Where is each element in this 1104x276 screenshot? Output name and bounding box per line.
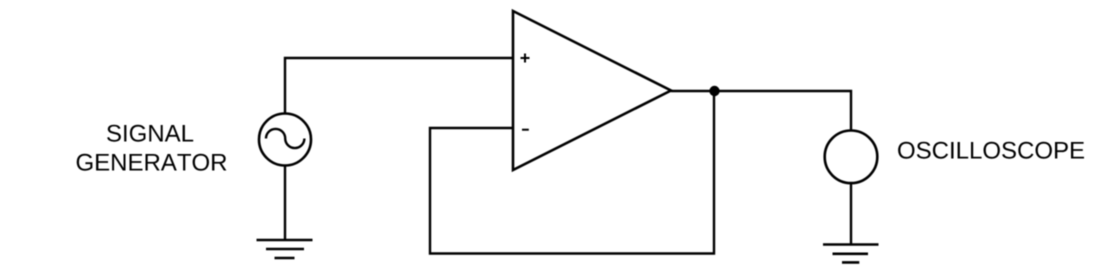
op-amp non-inverting input label +: [521, 54, 530, 63]
wire signal generator to ground: [284, 166, 286, 241]
sine wave symbol inside SG1: [266, 129, 304, 148]
signal generator SG1: [259, 114, 311, 166]
oscilloscope probe circle: [825, 131, 878, 184]
ground (signal generator): [257, 240, 313, 258]
label OSCILLOSCOPE: [898, 142, 1084, 159]
label SIGNAL GENERATOR: [77, 125, 227, 171]
wire feedback loop: - input, down, across, up to output: [430, 91, 714, 254]
wire op-amp output to oscilloscope: [671, 91, 851, 131]
op-amp inverting input label -: [522, 129, 529, 131]
op-amp U1: [513, 11, 671, 170]
ground (oscilloscope): [823, 245, 879, 263]
wire oscilloscope to ground: [850, 183, 852, 245]
node output junction: [709, 86, 719, 96]
wire signal generator to op-amp + input: [285, 58, 513, 114]
